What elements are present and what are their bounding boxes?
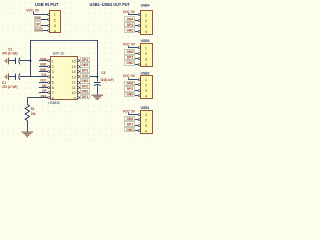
svg-text:1: 1 (145, 78, 147, 82)
svg-text:USB IN PUT: USB IN PUT (35, 2, 59, 7)
svg-text:10: 10 (72, 91, 76, 95)
svg-text:4: 4 (145, 63, 147, 67)
svg-text:14: 14 (72, 70, 76, 74)
wire GND to pin4 (USB1) (135, 130, 138, 132)
svg-text:DP2: DP2 (82, 84, 88, 88)
ground under C3 (92, 95, 104, 100)
pin 7 DP (U1 left) (39, 92, 48, 94)
svg-text:DP3: DP3 (82, 68, 88, 72)
svg-text:DM: DM (42, 84, 47, 88)
svg-text:SOP-16: SOP-16 (53, 51, 64, 55)
svg-text:4: 4 (145, 129, 147, 133)
wire DM3 to pin2 (USB3) (135, 53, 138, 55)
svg-text:4: 4 (54, 30, 56, 34)
pin 1 DM4 (U1 left) (39, 60, 48, 62)
net label GND (USB3) (125, 61, 135, 66)
svg-text:VCC: VCC (123, 43, 131, 47)
net label DM4 (USB4) (125, 17, 135, 22)
wire U1 pin8 REF to R1 (27, 97, 40, 99)
svg-text:V33: V33 (41, 73, 46, 77)
pin 12 DM2 (U1 right) (77, 82, 79, 84)
connector USB1 box (141, 111, 153, 134)
svg-text:3: 3 (54, 24, 56, 28)
net label V33 (pin 13) (81, 74, 90, 78)
net label DM3 (USB3) (125, 50, 135, 55)
wire GND to pin4 (USB2) (135, 95, 138, 97)
wire DP3 to pin3 (USB3) (135, 58, 138, 60)
connector USB4 box (141, 11, 153, 35)
svg-text:GND: GND (126, 28, 134, 32)
svg-text:2: 2 (145, 83, 147, 87)
svg-text:1: 1 (54, 13, 56, 17)
net label GND (USB4) (125, 28, 135, 33)
wire VCC to pin1 (USB3) (128, 47, 138, 49)
wire top to C3 (97, 40, 99, 82)
svg-text:DP3: DP3 (127, 56, 133, 60)
wire VCC to pin1 (USB2) (128, 79, 138, 81)
svg-text:8: 8 (52, 96, 54, 100)
net label DP1 (USB1) (125, 122, 135, 127)
junction C2/bus (30, 60, 32, 62)
svg-text:DP2: DP2 (127, 87, 133, 91)
svg-text:VCC: VCC (123, 109, 131, 113)
svg-text:2: 2 (145, 19, 147, 23)
wire GND to pin4 (43, 30, 48, 32)
svg-text:3: 3 (145, 25, 147, 29)
net label DM1 (pin 10) (81, 89, 90, 94)
connector USB IN box (50, 11, 61, 33)
capacitor C1 (15, 74, 17, 80)
net label DP3 (pin 14) (81, 68, 90, 73)
pin 11 DP2 (U1 right) (77, 87, 79, 89)
pin 16 DP4 (U1 right) (77, 60, 79, 62)
svg-text:USB3: USB3 (141, 39, 150, 43)
pin 6 DM (U1 left) (39, 87, 48, 89)
net label DP4 (pin 16) (81, 58, 90, 62)
wire DM1 to pin2 (USB1) (135, 119, 138, 121)
svg-text:2: 2 (52, 65, 54, 69)
wire DM4 to pin2 (USB4) (135, 20, 138, 22)
svg-text:USB4: USB4 (141, 3, 150, 7)
wire bus to U1 pin4 V33 (31, 76, 41, 78)
net label DP2 (pin 11) (81, 84, 90, 89)
svg-text:DP: DP (42, 89, 46, 93)
pin 8 REF (U1 left) (39, 97, 48, 99)
net label DM1 (USB1) (125, 117, 135, 121)
connector USB2 box (141, 76, 153, 99)
svg-text:VCC: VCC (26, 8, 34, 12)
svg-text:DM4: DM4 (127, 17, 134, 21)
pin 13 V33 (U1 right) (77, 76, 79, 78)
svg-text:6: 6 (52, 86, 54, 90)
pin 14 DP3 (U1 right) (77, 71, 79, 73)
net label DM3 (pin 15) (81, 63, 90, 68)
svg-text:4: 4 (145, 94, 147, 98)
net label DM (USB IN) (35, 17, 41, 21)
svg-text:GND: GND (126, 61, 134, 65)
wire VCC to pin1 (USB IN) (33, 14, 47, 16)
svg-text:DM3: DM3 (127, 50, 134, 54)
net label GND (USB2) (125, 93, 135, 97)
svg-text:DP1: DP1 (127, 122, 133, 126)
svg-text:2: 2 (54, 18, 56, 22)
svg-text:DM4: DM4 (40, 57, 46, 61)
svg-text:104(0.1uF): 104(0.1uF) (100, 78, 113, 82)
wire GND to pin4 (USB4) (135, 31, 138, 33)
wire VCC to pin1 (USB1) (128, 114, 138, 116)
pin 9 DP1 (U1 right) (77, 97, 79, 99)
svg-text:DM: DM (35, 17, 40, 21)
ground (sideways) at C1 (5, 73, 8, 80)
svg-text:2: 2 (145, 52, 147, 56)
svg-text:3: 3 (145, 124, 147, 128)
svg-text:3: 3 (145, 89, 147, 93)
svg-text:VCC: VCC (123, 10, 131, 14)
svg-text:DM1: DM1 (81, 89, 88, 93)
svg-text:10k: 10k (31, 112, 36, 116)
wire gnd to C2 (9, 60, 16, 62)
svg-text:GND: GND (40, 68, 47, 72)
pin 4 V33 (U1 left) (39, 76, 48, 78)
connector USB3 box (141, 44, 153, 67)
svg-text:DM2: DM2 (127, 82, 134, 86)
svg-text:GND: GND (126, 93, 134, 97)
ground (sideways) at C2 (5, 58, 8, 65)
svg-text:1: 1 (145, 113, 147, 117)
svg-text:475 (4.7uF): 475 (4.7uF) (2, 85, 17, 89)
net label DP (USB IN) (35, 22, 41, 27)
svg-text:1: 1 (52, 60, 54, 64)
svg-text:VCC: VCC (123, 74, 131, 78)
pin 15 DM3 (U1 right) (77, 66, 79, 68)
wire DM to pin2 (41, 19, 48, 21)
svg-text:15: 15 (72, 65, 76, 69)
svg-text:DP: DP (35, 22, 40, 26)
svg-text:USB2: USB2 (141, 71, 150, 75)
net label DP2 (USB2) (125, 87, 135, 92)
svg-text:V33: V33 (82, 74, 88, 78)
wire DP1 to pin3 (USB1) (135, 125, 138, 127)
wire C1 to bus / U1 pin4 V33 (20, 76, 31, 78)
svg-text:1: 1 (145, 46, 147, 50)
pin 5 VCC (U1 left) (39, 82, 48, 84)
wire C3 to ground (97, 85, 99, 95)
capacitor C3 (94, 82, 101, 84)
net label GND (USB IN) (35, 28, 43, 32)
svg-text:DP4: DP4 (127, 23, 133, 27)
wire gnd to C1 (9, 76, 16, 78)
IC U1 HS8836 body (SOP-16) (51, 57, 78, 100)
svg-text:2: 2 (145, 118, 147, 122)
svg-text:USB1~USB4 OUT PUT: USB1~USB4 OUT PUT (90, 2, 131, 7)
svg-text:USB1: USB1 (141, 106, 150, 110)
net label GND (USB1) (125, 128, 135, 132)
wire DP2 to pin3 (USB2) (135, 90, 138, 92)
svg-text:475 (4.7uF): 475 (4.7uF) (2, 51, 17, 55)
svg-text:1: 1 (145, 14, 147, 18)
net label DP4 (USB4) (125, 23, 135, 27)
svg-text:R1: R1 (31, 107, 35, 111)
svg-text:9: 9 (74, 96, 76, 100)
net label DM2 (pin 12) (81, 79, 90, 84)
svg-text:GND: GND (126, 128, 134, 132)
svg-text:GND: GND (35, 28, 43, 32)
net label DP3 (USB3) (125, 56, 135, 60)
svg-text:5: 5 (52, 81, 54, 85)
pin 3 GND (U1 left) (39, 71, 48, 73)
svg-text:16: 16 (72, 60, 76, 64)
svg-text:REF: REF (41, 94, 47, 98)
svg-text:11: 11 (72, 86, 76, 90)
svg-text:C3: C3 (101, 71, 105, 75)
svg-text:7: 7 (52, 91, 54, 95)
wire R1 to ground (27, 121, 29, 132)
wire VCC to pin1 (USB4) (128, 14, 138, 16)
svg-text:DM2: DM2 (81, 79, 88, 83)
svg-text:3: 3 (145, 57, 147, 61)
svg-text:DM3: DM3 (81, 63, 88, 67)
wire DM2 to pin2 (USB2) (135, 84, 138, 86)
svg-text:DP1: DP1 (82, 95, 88, 99)
ground under R1 (22, 132, 34, 137)
svg-text:HS8836: HS8836 (48, 101, 59, 105)
wire DP to pin3 (41, 25, 48, 27)
resistor R1 (25, 105, 29, 121)
wire V33 bus vertical (30, 40, 32, 77)
wire GND to pin4 (USB3) (135, 64, 138, 66)
junction node V33/C3 (96, 76, 98, 78)
svg-text:DM1: DM1 (127, 117, 134, 121)
pin 2 GND (U1 left) (39, 66, 48, 68)
net label DM2 (USB2) (125, 82, 135, 86)
wire V33 top horizontal (31, 40, 98, 42)
pin 10 DM1 (U1 right) (77, 92, 79, 94)
svg-text:VCC: VCC (40, 78, 47, 82)
net label DP1 (pin 9) (81, 95, 90, 99)
svg-text:12: 12 (72, 81, 76, 85)
svg-text:DP4: DP4 (82, 58, 88, 62)
capacitor C2 (15, 58, 17, 64)
wire DP4 to pin3 (USB4) (135, 25, 138, 27)
svg-text:3: 3 (52, 70, 54, 74)
svg-text:GND: GND (40, 62, 47, 66)
svg-text:4: 4 (52, 75, 54, 79)
wire C2 to V33 bus (20, 60, 31, 62)
svg-text:4: 4 (145, 30, 147, 34)
svg-text:13: 13 (72, 75, 76, 79)
wire U1 pin13 V33 to C3 node (90, 76, 98, 78)
